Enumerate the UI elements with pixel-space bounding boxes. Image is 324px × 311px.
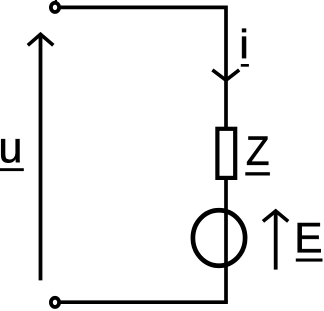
label i <box>241 29 249 67</box>
wire top <box>58 6 226 10</box>
label E <box>296 223 323 262</box>
terminal stub top <box>55 0 57 2</box>
voltage arrow u <box>28 34 54 280</box>
impedance Z <box>217 129 235 178</box>
source E <box>193 210 245 266</box>
wire bottom <box>58 300 228 304</box>
current arrow i <box>212 70 239 80</box>
label u <box>0 139 24 171</box>
wire right <box>224 6 228 303</box>
emf arrow E <box>263 211 288 270</box>
terminal top-left <box>51 3 59 12</box>
label Z <box>245 137 270 176</box>
terminal bottom-left <box>51 298 59 307</box>
